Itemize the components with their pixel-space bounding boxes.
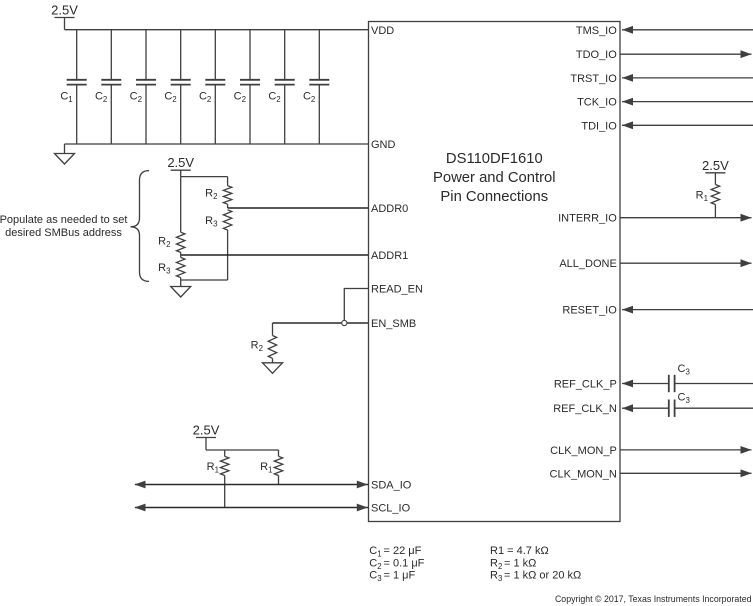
svg-text:SCL_IO: SCL_IO <box>371 503 411 515</box>
capacitor C3 (REF_CLK_N) <box>668 400 670 417</box>
resistor R1 (SDA pull-up) <box>274 456 282 475</box>
wire right R1 to SDA <box>278 476 280 485</box>
svg-text:2.5V: 2.5V <box>702 158 729 173</box>
ground (decoupling rail) <box>64 144 66 154</box>
capacitor C2 #4 <box>180 30 182 80</box>
brace (populate note) <box>131 171 150 282</box>
wire left branch <box>180 177 182 233</box>
arrow RESET_IO <box>622 306 633 314</box>
svg-text:Pin Connections: Pin Connections <box>440 189 548 205</box>
svg-text:TMS_IO: TMS_IO <box>576 25 617 37</box>
ground (EN_SMB) <box>272 358 274 363</box>
arrow REF_CLK_N <box>622 404 633 412</box>
arrow INTERR_IO <box>741 214 752 222</box>
svg-text:CLK_MON_P: CLK_MON_P <box>550 445 617 457</box>
wire bottom tie <box>181 278 228 280</box>
svg-text:REF_CLK_P: REF_CLK_P <box>554 379 617 391</box>
wire right R1 top <box>278 450 280 456</box>
svg-text:REF_CLK_N: REF_CLK_N <box>553 403 617 415</box>
wire ADDR1 node <box>180 252 182 257</box>
arrow TCK_IO <box>622 98 633 106</box>
svg-text:TCK_IO: TCK_IO <box>577 97 617 109</box>
svg-text:VDD: VDD <box>371 25 394 37</box>
resistor R3 (ADDR0 pull-down) <box>223 210 231 230</box>
svg-text:Power and Control: Power and Control <box>433 170 556 186</box>
wire right branch bottom <box>227 230 229 280</box>
svg-text:ADDR1: ADDR1 <box>371 250 408 262</box>
IC DS110DF1610 box <box>369 22 621 522</box>
resistor R2 (EN_SMB pull-down) <box>268 336 276 359</box>
svg-text:= 22 μF: = 22 μF <box>384 545 422 557</box>
arrow SDA_IO into box <box>357 481 368 489</box>
svg-text:READ_EN: READ_EN <box>371 284 423 296</box>
arrow REF_CLK_P <box>622 380 633 388</box>
svg-text:RESET_IO: RESET_IO <box>562 305 617 317</box>
wire EN_SMB drop <box>272 323 274 336</box>
junction circle (EN_SMB/READ_EN) <box>342 320 347 325</box>
svg-text:= 1 kΩ: = 1 kΩ <box>504 557 536 569</box>
wire ALL_DONE <box>620 262 752 264</box>
svg-text:TDI_IO: TDI_IO <box>581 120 617 132</box>
wire REF_CLK_P right <box>675 383 753 385</box>
wire right branch top <box>227 177 229 186</box>
resistor R3 (ADDR1 pull-down) <box>177 257 185 277</box>
wire GND rail (ground to GND pin) <box>65 143 369 145</box>
capacitor C2 #3 <box>145 30 147 80</box>
wire TCK_IO <box>622 101 753 103</box>
svg-text:ADDR0: ADDR0 <box>371 203 408 215</box>
svg-text:CLK_MON_N: CLK_MON_N <box>550 468 617 480</box>
wire CLK_MON_P <box>620 449 752 451</box>
resistor R2 (ADDR1 pull-up) <box>177 232 185 252</box>
capacitor C2 #7 <box>284 30 286 80</box>
wire SCL_IO <box>135 507 369 509</box>
svg-text:SDA_IO: SDA_IO <box>371 480 412 492</box>
svg-text:Populate as needed to set: Populate as needed to set <box>0 214 127 226</box>
svg-text:GND: GND <box>371 139 396 151</box>
wire RESET_IO <box>622 309 753 311</box>
arrow TDI_IO <box>622 121 633 129</box>
resistor R2 (ADDR0 pull-up) <box>223 186 231 205</box>
arrow SCL_IO left <box>135 504 146 512</box>
wire ADDR top junction <box>181 176 228 178</box>
svg-text:R1 = 4.7 kΩ: R1 = 4.7 kΩ <box>490 545 549 557</box>
svg-text:2.5V: 2.5V <box>193 423 220 438</box>
svg-text:ALL_DONE: ALL_DONE <box>559 258 616 270</box>
wire R2-ADDR0 node <box>227 204 229 208</box>
wire R1 to INTERR_IO <box>714 205 716 218</box>
wire REF_CLK_N right <box>675 407 753 409</box>
arrow TMS_IO <box>622 26 633 34</box>
svg-text:= 0.1 μF: = 0.1 μF <box>384 557 425 569</box>
capacitor C2 #5 <box>214 30 216 80</box>
wire TDI_IO <box>622 124 753 126</box>
wire REF_CLK_P left <box>622 383 669 385</box>
arrow TRST_IO <box>622 74 633 82</box>
capacitor C2 #2 <box>110 30 112 80</box>
wire TMS_IO <box>622 29 753 31</box>
arrow SCL_IO into box <box>357 504 368 512</box>
ground (ADDR network) <box>180 280 182 287</box>
wire ADDR0 <box>228 207 369 209</box>
wire pull-up rail <box>206 449 279 451</box>
svg-text:TRST_IO: TRST_IO <box>570 73 617 85</box>
resistor R1 (SCL pull-up) <box>221 456 229 475</box>
capacitor C1 #1 <box>76 30 78 80</box>
wire left R1 top <box>224 450 226 456</box>
svg-text:= 1 kΩ or 20 kΩ: = 1 kΩ or 20 kΩ <box>504 570 581 582</box>
wire SDA_IO <box>135 484 369 486</box>
svg-text:TDO_IO: TDO_IO <box>576 49 617 61</box>
svg-text:DS110DF1610: DS110DF1610 <box>446 151 543 167</box>
arrow TDO_IO <box>741 50 752 58</box>
capacitor C2 #6 <box>249 30 251 80</box>
capacitor C2 #8 <box>318 30 320 80</box>
arrow CLK_MON_N <box>741 469 752 477</box>
svg-text:= 1 μF: = 1 μF <box>384 570 416 582</box>
svg-text:EN_SMB: EN_SMB <box>371 318 416 330</box>
wire ADDR1 <box>181 254 369 256</box>
capacitor C3 (REF_CLK_P) <box>668 375 670 392</box>
wire REF_CLK_N left <box>622 407 669 409</box>
wire TRST_IO <box>622 77 753 79</box>
wire left R1 to SCL <box>224 476 226 508</box>
svg-text:desired SMBus address: desired SMBus address <box>5 227 122 239</box>
svg-text:Copyright © 2017, Texas Instru: Copyright © 2017, Texas Instruments Inco… <box>555 594 752 604</box>
svg-text:2.5V: 2.5V <box>51 3 78 18</box>
arrow ALL_DONE <box>741 259 752 267</box>
wire CLK_MON_N <box>620 472 752 474</box>
wire VDD rail (2.5V to VDD pin) <box>65 29 369 31</box>
svg-text:INTERR_IO: INTERR_IO <box>558 213 617 225</box>
arrow SDA_IO left <box>135 481 146 489</box>
arrow CLK_MON_P <box>741 446 752 454</box>
wire TDO_IO <box>620 53 752 55</box>
resistor R1 (INTERR pull-up) <box>711 185 719 205</box>
wire READ_EN <box>344 289 368 324</box>
wire INTERR_IO <box>620 217 752 219</box>
svg-text:2.5V: 2.5V <box>167 155 194 170</box>
wire EN_SMB <box>273 322 369 324</box>
